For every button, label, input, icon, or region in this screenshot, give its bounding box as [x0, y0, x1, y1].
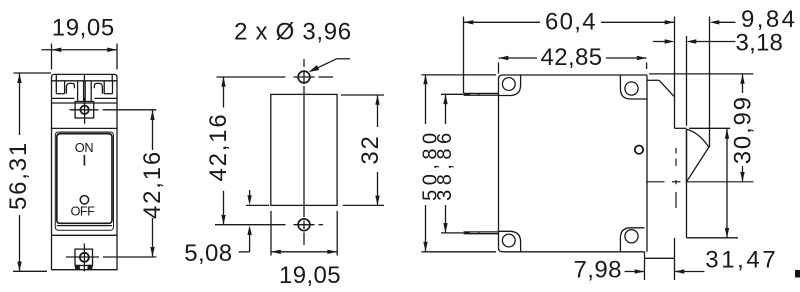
svg-text:2 x Ø 3,96: 2 x Ø 3,96 [234, 19, 352, 46]
svg-text:19,05: 19,05 [279, 262, 341, 287]
svg-text:7,98: 7,98 [574, 257, 622, 284]
svg-text:30,99: 30,99 [729, 95, 756, 164]
svg-text:56,31: 56,31 [5, 141, 32, 210]
svg-text:5,08: 5,08 [184, 240, 232, 267]
svg-text:OFF: OFF [71, 204, 96, 219]
svg-text:42,16: 42,16 [139, 150, 166, 219]
svg-text:42,85: 42,85 [540, 44, 602, 71]
svg-text:38,86: 38,86 [434, 128, 456, 201]
svg-text:19,05: 19,05 [52, 14, 115, 41]
svg-text:31,47: 31,47 [705, 247, 778, 274]
svg-text:60,4: 60,4 [545, 8, 597, 35]
svg-text:42,16: 42,16 [205, 112, 232, 181]
svg-text:32: 32 [357, 134, 384, 164]
svg-text:ON: ON [75, 140, 94, 155]
svg-text:3,18: 3,18 [736, 30, 784, 57]
